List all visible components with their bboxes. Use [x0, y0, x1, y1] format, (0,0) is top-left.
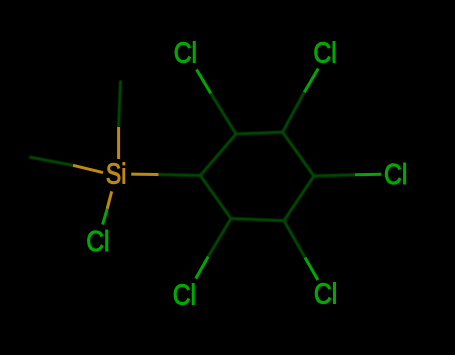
- wire dark half bond CH3 top: [119, 81, 121, 128]
- svg-text:Cl: Cl: [384, 159, 407, 191]
- wire ring edge C2-C3 (TL to TR): [236, 132, 283, 134]
- svg-text:Cl: Cl: [313, 38, 336, 70]
- svg-text:Si: Si: [106, 158, 126, 190]
- svg-text:Cl: Cl: [86, 226, 109, 258]
- svg-text:Cl: Cl: [314, 279, 337, 311]
- wire orange half bond Si-Cl: [107, 191, 112, 208]
- wire ring edge C4-C5 (R to BR): [284, 176, 314, 221]
- wire orange half bond Si-CH3 left: [73, 165, 103, 172]
- wire dark half bond C5-Cl (bottom-right): [284, 221, 305, 258]
- benzene ring C1-C6: [29, 81, 355, 258]
- wire dark half bond C1-Si: [159, 175, 201, 176]
- wire bright half bond Cl right: [355, 173, 382, 176]
- svg-text:Cl: Cl: [173, 279, 196, 311]
- wire dark half bond C4-Cl (right): [314, 175, 355, 176]
- wire bright half bond Si-Cl below: [103, 209, 108, 225]
- wire dark half bond CH3 left: [29, 157, 73, 165]
- wire ring edge C3-C4 (TR to R): [283, 132, 314, 176]
- wire bright half bond Cl top-right: [304, 69, 318, 93]
- orange silicon half-bonds: [73, 127, 159, 209]
- wire dark half bond C6-Cl (bottom-left): [208, 219, 231, 257]
- wire bright half bond Cl bottom-left: [196, 257, 209, 279]
- bright green chlorine half-bonds: [103, 69, 382, 281]
- wire ring edge C6-C1 (BL to L): [200, 176, 231, 219]
- wire orange half bond Si-CH3 top: [117, 127, 120, 159]
- wire dark half bond C3-Cl (top-right): [283, 92, 305, 132]
- wire bright half bond Cl bottom-right: [305, 258, 318, 281]
- wire ring edge C1-C2 (L to TL): [200, 134, 236, 176]
- wire ring edge C5-C6 (BR to BL): [231, 219, 284, 221]
- wire orange half bond Si-C1: [131, 173, 158, 176]
- svg-text:Cl: Cl: [174, 38, 197, 70]
- wire bright half bond Cl top-left: [197, 70, 211, 94]
- wire dark half bond C2-Cl (top-left): [211, 93, 236, 134]
